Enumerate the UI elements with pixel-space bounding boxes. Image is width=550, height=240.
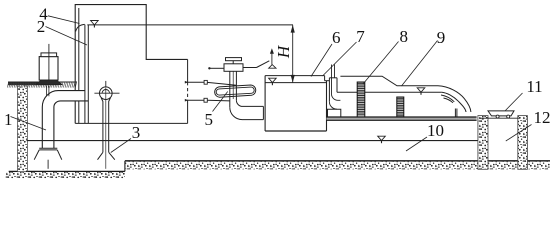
standpipe 3 body	[101, 98, 110, 152]
skimmer trolley (component 11)	[488, 111, 514, 116]
valve right pipe to funnel	[243, 67, 257, 69]
svg-text:7: 7	[356, 27, 365, 46]
water level symbol lower channel	[378, 136, 386, 140]
lower feed line with flange	[185, 99, 189, 102]
suction pipe 1 with elbow (white filled body)	[42, 91, 88, 107]
leader line 12	[506, 125, 532, 142]
gate valve on drop pipe	[226, 58, 242, 61]
trolley rail	[481, 117, 521, 119]
step box on channel floor	[328, 109, 341, 117]
gooseneck on standpipe 3	[100, 87, 113, 100]
svg-text:10: 10	[427, 121, 444, 140]
drop box elbow	[332, 94, 341, 100]
leader line 2	[46, 27, 88, 46]
step between trench and bank	[124, 161, 126, 172]
funnel / vent symbol	[271, 53, 273, 65]
motor on pedestal	[39, 57, 58, 81]
receiving tank	[264, 76, 266, 131]
svg-text:1: 1	[4, 110, 13, 129]
svg-text:H: H	[274, 44, 293, 59]
upper tank box outline	[75, 5, 187, 124]
leader line 1	[11, 117, 47, 131]
elbow into tank	[230, 107, 264, 119]
svg-text:11: 11	[526, 77, 542, 96]
leader line 6	[311, 44, 332, 77]
water level symbol upper tank	[91, 21, 99, 25]
loop (component 5) stadium coil	[215, 85, 256, 97]
pump house floor slab (hatched)	[8, 82, 58, 85]
pump shaft housing	[46, 86, 48, 97]
valve left feed with end dot	[208, 67, 210, 69]
spillway curves	[438, 86, 471, 112]
channel floor slab	[327, 117, 477, 120]
drop pipe vertical (solid-dash-solid)	[187, 59, 189, 82]
leader line 10	[406, 137, 427, 151]
channel cover profile	[340, 76, 438, 86]
grid column 8a	[357, 82, 365, 117]
pipe 2 top bell flare	[76, 24, 85, 31]
water level symbol channel	[417, 88, 425, 92]
ground line right bank	[125, 160, 550, 162]
tank rim and weir step	[265, 75, 325, 77]
svg-text:6: 6	[332, 28, 341, 47]
leader line 3	[111, 139, 131, 153]
suction pipe 1 bell mouth	[39, 147, 57, 149]
pump house lower floor line	[75, 122, 187, 124]
outlet drop box on tank	[331, 65, 333, 95]
upper feed line with flange	[185, 81, 189, 84]
trench floor line	[9, 170, 125, 172]
svg-text:12: 12	[534, 108, 550, 127]
left wall (stippled)	[18, 86, 28, 172]
leader line 9	[402, 41, 438, 87]
svg-text:3: 3	[132, 123, 141, 142]
upper tank left wall inner line	[78, 8, 80, 123]
tank water line	[265, 82, 326, 84]
leader line 4	[48, 16, 80, 24]
grid column 8b	[397, 97, 404, 117]
trench floor hatching	[6, 172, 125, 178]
leader line 11	[505, 93, 522, 111]
weir end wall	[454, 109, 456, 118]
svg-text:5: 5	[204, 110, 213, 129]
water level symbol tank	[269, 78, 277, 82]
outflow channel water line	[337, 91, 442, 93]
svg-text:4: 4	[39, 5, 48, 24]
leader line 7	[323, 42, 357, 76]
upper water level line	[87, 24, 293, 26]
riser pipe 2	[84, 25, 86, 124]
ground hatching right bank	[125, 162, 550, 170]
valve drop pipe through loop	[229, 71, 231, 107]
motor base skirt	[36, 80, 62, 85]
leader line 8	[363, 42, 399, 85]
svg-text:9: 9	[437, 28, 446, 47]
standpipe 3 bell foot	[98, 152, 115, 159]
discharge well left wall	[478, 116, 488, 170]
svg-text:8: 8	[400, 27, 409, 46]
long lower water line	[27, 140, 478, 142]
discharge well right wall	[518, 116, 528, 170]
head dimension line H	[292, 25, 294, 83]
leader line 5	[213, 92, 228, 112]
